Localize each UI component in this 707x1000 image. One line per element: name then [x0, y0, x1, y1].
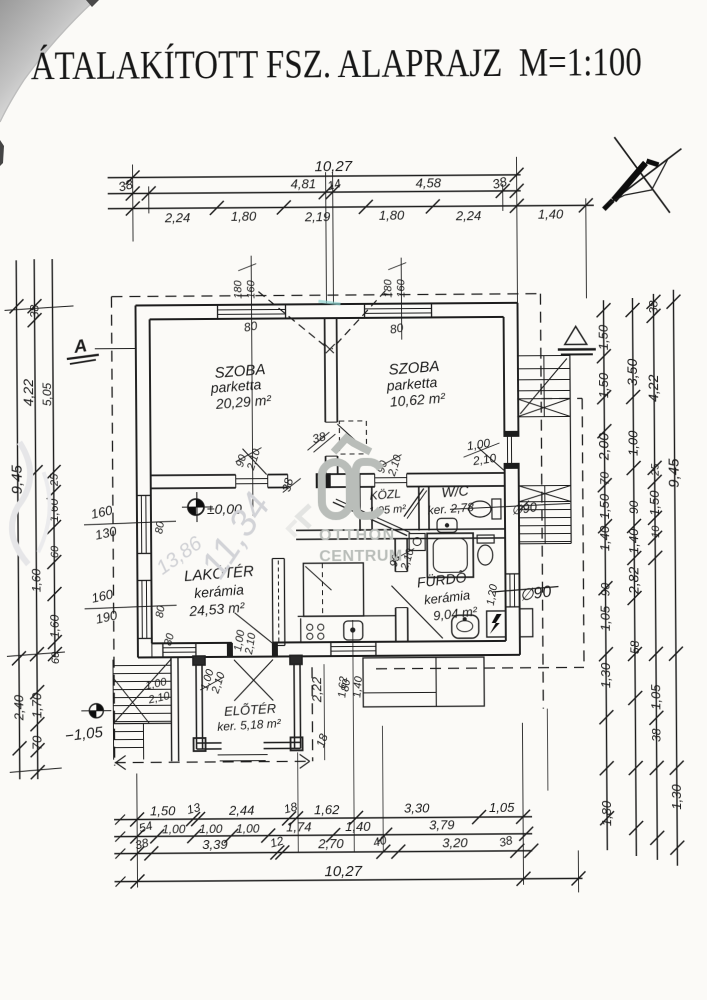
interior wall H1 (rooms / living separation) [151, 474, 236, 477]
svg-text:1,62: 1,62 [314, 802, 340, 817]
svg-text:1,05: 1,05 [598, 605, 613, 631]
svg-text:25: 25 [49, 473, 61, 487]
svg-text:1,50: 1,50 [150, 803, 176, 818]
svg-text:2,44: 2,44 [228, 803, 254, 818]
bottom dimension chain line 3 [114, 851, 532, 854]
svg-text:2,00: 2,00 [595, 433, 611, 462]
watermark house logo roof [333, 438, 370, 452]
door leaf wc [404, 488, 424, 516]
svg-text:1,50: 1,50 [596, 372, 611, 398]
svg-text:58: 58 [628, 640, 642, 654]
interior wall H2 bath top [296, 529, 505, 530]
left window label 160/190 [85, 605, 177, 609]
entry door step [218, 754, 268, 756]
svg-text:CENTRUM: CENTRUM [319, 548, 403, 566]
svg-text:2,22: 2,22 [309, 676, 324, 703]
right chain ticks [596, 303, 610, 317]
svg-text:1,40: 1,40 [351, 675, 365, 698]
svg-text:10,27: 10,27 [324, 863, 362, 880]
bottom dimension chain line 2 [114, 834, 532, 837]
svg-text:1,40: 1,40 [345, 819, 371, 834]
svg-text:1,80: 1,80 [379, 208, 405, 223]
north arrow symbol [606, 149, 681, 206]
svg-text:1,60: 1,60 [48, 614, 62, 638]
top chain extension lines [132, 165, 135, 242]
svg-text:4,81: 4,81 [291, 176, 316, 191]
upper exterior stair [517, 354, 570, 356]
svg-text:1,00: 1,00 [199, 822, 223, 836]
svg-text:180: 180 [232, 279, 244, 298]
level mark 0,00 [182, 506, 213, 508]
left chain ticks [9, 299, 23, 313]
top dimension chain line 3 (2,24/1,80/2,19/1,80/2,24/1,40) [108, 205, 594, 208]
top dimension chain line 2 (38/4,81/14/4,58/38) [108, 191, 521, 194]
svg-text:A: A [72, 335, 89, 357]
svg-text:3,20: 3,20 [442, 835, 468, 850]
bottom dimension chain line 1 [114, 817, 532, 820]
svg-text:160: 160 [395, 278, 407, 297]
svg-text:KÖZL: KÖZL [369, 486, 401, 502]
bath sink [452, 615, 479, 638]
svg-text:38: 38 [646, 300, 660, 314]
svg-text:1,62: 1,62 [336, 676, 350, 698]
roof outline dashed jog at stair [541, 397, 582, 399]
svg-text:1,80: 1,80 [599, 800, 614, 826]
pillar in wall H1 [316, 473, 331, 488]
svg-text:2,82: 2,82 [625, 567, 641, 596]
roof outline dashed bottom at entry [115, 761, 313, 762]
door leaf hall diagonal [333, 502, 407, 537]
faint pencil squiggle left margin [11, 442, 30, 564]
lower exterior stair [519, 484, 571, 486]
svg-text:38: 38 [27, 304, 41, 318]
electric box with lightning [487, 611, 506, 637]
svg-text:38: 38 [649, 728, 663, 742]
interior wall V4 bath left with door [394, 539, 396, 572]
svg-text:1,50: 1,50 [596, 324, 611, 350]
svg-text:W/C: W/C [441, 482, 470, 500]
svg-text:160: 160 [245, 279, 257, 298]
door swing room1 [242, 449, 266, 475]
svg-text:ÁTALAKÍTOTT FSZ. ALAPRAJZ M=1: ÁTALAKÍTOTT FSZ. ALAPRAJZ M=1:100 [31, 39, 642, 88]
svg-text:4,22: 4,22 [645, 374, 661, 402]
svg-text:1,30: 1,30 [598, 662, 613, 688]
cyan scan mark above window [318, 301, 340, 304]
svg-text:3,39: 3,39 [202, 837, 227, 852]
bottom chain extension lines [136, 773, 139, 887]
svg-text:1,00: 1,00 [236, 822, 260, 836]
svg-text:1,74: 1,74 [286, 819, 311, 834]
svg-text:5,05: 5,05 [40, 382, 54, 406]
left chain short connector lines [5, 306, 74, 310]
door swing into living room [235, 613, 273, 644]
svg-text:90: 90 [627, 500, 641, 514]
watermark letter O [322, 462, 350, 516]
left terrace steps [113, 664, 171, 666]
svg-text:OTTHON: OTTHON [319, 527, 396, 545]
door swing bath [391, 585, 442, 638]
bath toilet [477, 535, 494, 543]
scanned page corner fold top-left [0, 0, 95, 122]
bottom dimension chain line 4 (total 10,27) [115, 878, 583, 881]
svg-text:180: 180 [382, 278, 394, 297]
outer wall right with door opening [516, 303, 519, 432]
door swing rooms V1 [337, 424, 363, 448]
stove burners [307, 624, 313, 630]
window W2 top wall 1,80 [365, 307, 432, 309]
interior wall V1 between rooms [324, 318, 327, 422]
wc toilet [469, 501, 491, 517]
svg-text:70: 70 [598, 471, 612, 485]
svg-text:1,80: 1,80 [231, 209, 257, 224]
interior wall V3 hall/wc [418, 487, 420, 531]
kitchen counter [298, 615, 396, 618]
faint watermark chevrons left [298, 505, 310, 527]
svg-text:3,30: 3,30 [404, 800, 430, 815]
window bottom wall small [163, 647, 196, 649]
svg-text:1,40: 1,40 [626, 528, 641, 554]
svg-text:4,22: 4,22 [20, 379, 36, 407]
section marker A right [565, 326, 587, 344]
entry bottom wall with door [197, 742, 222, 744]
kitchen tall cabinet [303, 563, 363, 616]
roof valley dashed V lines [258, 291, 328, 349]
watermark letter C [356, 462, 381, 516]
kitchen sink [344, 621, 363, 640]
svg-text:1,05: 1,05 [489, 800, 515, 815]
right dimension chain vertical lines [603, 300, 607, 850]
svg-text:2,40: 2,40 [11, 694, 26, 721]
left dimension chain vertical lines [16, 260, 20, 779]
top dimension chain line 1 (total 10,27) [108, 175, 521, 178]
entry right wall [293, 657, 296, 748]
window W1 top wall 1,80 [218, 308, 286, 310]
left window label 160/130 [84, 521, 176, 525]
svg-text:9,45: 9,45 [9, 464, 26, 494]
door sill lines in H1 openings [236, 478, 268, 480]
level mark -1,05 [89, 704, 103, 718]
svg-text:2,24: 2,24 [164, 210, 190, 225]
bottom chain left end hooks [115, 815, 125, 825]
pillar outside right wall [520, 609, 533, 637]
window bath right wall [509, 574, 511, 607]
svg-text:90: 90 [598, 582, 612, 596]
washing machine [409, 533, 425, 550]
svg-text:1,50: 1,50 [647, 490, 662, 516]
svg-text:1,40: 1,40 [597, 525, 612, 551]
entry left wall [195, 658, 198, 749]
dashed wardrobe next to V1 [339, 421, 366, 454]
svg-text:2,70: 2,70 [317, 836, 344, 851]
svg-text:60: 60 [50, 651, 62, 664]
svg-text:10: 10 [650, 525, 662, 538]
svg-text:1,00: 1,00 [162, 822, 186, 836]
svg-text:9,45: 9,45 [666, 458, 683, 488]
scan artifact dark sliver top edge [86, 0, 99, 7]
svg-text:25: 25 [650, 463, 662, 477]
svg-text:60: 60 [49, 545, 61, 558]
svg-text:1,00: 1,00 [625, 430, 640, 456]
wc sink [437, 518, 457, 532]
svg-text:1,05: 1,05 [648, 684, 663, 710]
scan artifact dark blob left edge [0, 140, 4, 166]
window left wall 160/130 [140, 495, 142, 553]
chimney flue [271, 559, 274, 646]
roof outline dashed right upper [540, 294, 543, 709]
svg-text:4,58: 4,58 [416, 175, 442, 190]
window kitchen bottom wall [331, 645, 376, 647]
svg-text:1,50: 1,50 [597, 493, 612, 519]
svg-text:3,79: 3,79 [429, 817, 454, 832]
svg-text:1,40: 1,40 [538, 206, 564, 221]
entry corner posts [194, 738, 206, 751]
interior wall V2 hall left [359, 474, 361, 531]
outer wall left [135, 305, 137, 657]
back terrace [363, 657, 484, 707]
window left wall 160/190 [141, 580, 143, 638]
entry door swing X [234, 660, 273, 701]
svg-text:1,70: 1,70 [29, 692, 44, 718]
roof outline dashed top [111, 294, 540, 297]
outer wall top [135, 303, 517, 306]
bath tub [427, 533, 473, 577]
svg-text:1,30: 1,30 [669, 784, 684, 810]
svg-text:10,27: 10,27 [314, 158, 352, 175]
roof outline dashed left [111, 297, 114, 766]
outer wall bottom with door opening [138, 655, 520, 658]
svg-text:3,50: 3,50 [624, 359, 640, 387]
svg-text:2,24: 2,24 [455, 208, 481, 223]
svg-text:1,60: 1,60 [29, 568, 43, 592]
svg-text:70: 70 [29, 735, 44, 750]
